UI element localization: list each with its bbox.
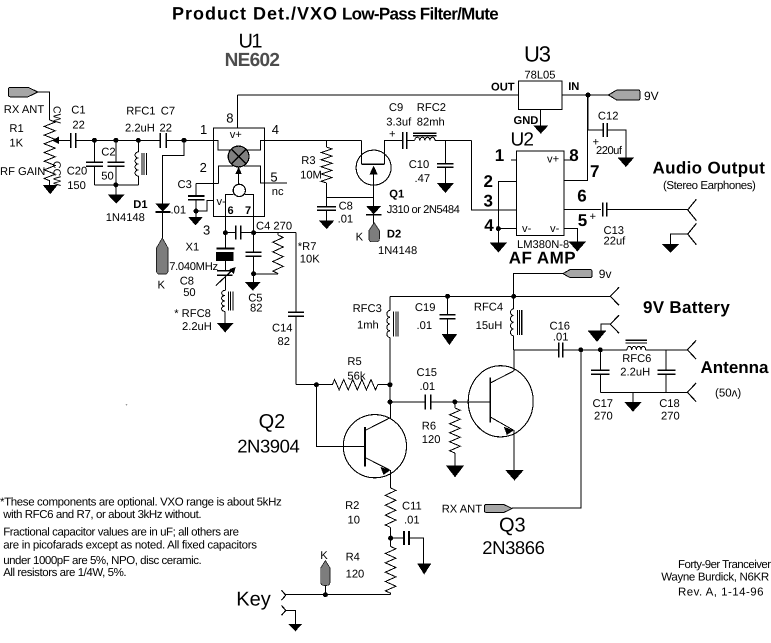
label .01 (C15) [420,381,436,393]
diode D1 1N4148 [155,204,170,239]
pin 8 wire U1 [237,95,239,128]
potentiometer R1 1K [44,120,55,181]
svg-text:1mh: 1mh [357,319,379,331]
label 15uH [476,320,503,332]
svg-text:K: K [158,280,166,292]
ground below C2 [108,185,125,204]
label 8 (U1) [226,111,233,126]
wire C7 to U1 pin1 [166,139,213,141]
label RX ANT [4,104,45,116]
ground below U2 pin4 [490,229,508,253]
label C8 (variable) [180,276,194,288]
node C5/R7 bottom [251,271,256,276]
label C5 [248,293,262,305]
transistor Q2 2N3904 [343,402,406,488]
svg-text:under 1000pF are 5%, NPO, disc: under 1000pF are 5%, NPO, disc ceramic. [3,555,201,567]
svg-text:C17: C17 [593,398,614,410]
label 22 (C7) [160,123,172,135]
wire U1 pin4 to Q1 [265,139,362,141]
label LM380N-8 [517,239,569,251]
IC U1 box [214,128,265,217]
svg-text:*R7: *R7 [298,241,317,253]
svg-text:.01: .01 [420,381,436,393]
label C7 [161,106,175,118]
title Product Det./VXO [172,4,338,24]
label * RFC8 [174,308,211,320]
svg-text:22uf: 22uf [604,235,627,247]
label .01 (C11) [404,515,420,527]
voltage regulator U3 78L05 [519,81,563,110]
label 6 (U2) [577,187,586,206]
node C2 bottom [113,182,118,187]
svg-text:8: 8 [569,146,578,165]
wire key line [286,594,391,596]
svg-text:Audio Output: Audio Output [653,158,766,177]
variable capacitor C8 50 [216,267,236,290]
svg-text:2: 2 [200,160,207,175]
label 3 (U2) [484,192,493,211]
ground below C17/C18 [624,392,642,411]
capacitor C1 22 [71,133,76,148]
label C2 [101,147,115,159]
wire C3 to v- [196,201,214,211]
speck [126,404,128,406]
pin6 stub U1 [224,217,226,233]
label R4 [346,552,360,564]
svg-text:R4: R4 [346,552,360,564]
svg-text:nc: nc [272,186,284,198]
label 7 (U2) [590,162,599,181]
svg-text:C3: C3 [178,179,192,191]
wire to D1 [163,140,184,203]
credit line 2 [661,572,769,584]
battery jack minus [601,315,619,333]
label RFC3 [353,303,382,315]
wire base feed Q2 [316,385,365,447]
label 9v (lower) [599,267,612,281]
node at C20 [92,138,97,143]
svg-text:C1: C1 [71,105,85,117]
svg-text:.01: .01 [553,332,569,344]
label U1 [239,31,263,53]
svg-text:.01: .01 [338,213,354,225]
svg-text:are in picofarads except as no: are in picofarads except as noted. All f… [3,540,257,552]
transistor Q1 J310 [356,140,403,206]
svg-text:NE602: NE602 [225,50,280,71]
capacitor C17 270 [591,350,610,393]
U1 internal pin4 path [246,140,264,150]
svg-text:v-: v- [550,223,560,235]
label R3 [301,155,315,167]
label C17 [593,398,614,410]
audio jack tip [688,199,697,220]
svg-text:Q2: Q2 [259,411,286,433]
pin5 wire U2 [564,229,578,242]
antenna jack sleeve [687,383,696,402]
label CW [51,106,63,124]
svg-text:10M: 10M [300,170,322,182]
wire lower rail [390,295,610,297]
node at C2 [113,138,118,143]
ground below C12 [617,157,634,167]
wire 9v to rail [514,274,563,297]
label RFC6 [622,353,651,365]
label K (D2) [356,231,364,243]
K marker below D1 [157,238,169,274]
svg-text:*These components are optional: *These components are optional. VXO rang… [0,497,282,509]
label 220uf [596,145,623,157]
label 78L05 [524,70,555,82]
label C11 [402,501,422,513]
ground below Q3 emitter [505,470,524,481]
wire to Q3 base [455,401,490,403]
transistor Q3 2N3866 [468,350,533,470]
label D2 [387,228,401,240]
resistor R3 10M [321,140,332,197]
U3 GND pin [533,110,548,134]
label 6 (U1) [228,205,234,217]
svg-text:D2: D2 [387,228,401,240]
svg-text:220uf: 220uf [596,145,623,157]
label NE602 [225,50,280,71]
svg-text:R3: R3 [301,155,315,167]
svg-text:AF AMP: AF AMP [509,248,576,267]
wire pin7 to C14 corner [254,232,296,234]
node pin1 net [182,138,187,143]
svg-text:1: 1 [495,146,504,165]
label 2 (U1) [200,160,207,175]
svg-text:RFC3: RFC3 [353,303,382,315]
label v+ (U1) [230,129,242,141]
key jack sleeve [282,606,296,625]
label RF GAIN [0,166,45,178]
IC U2 box [516,151,563,236]
label .01 (C16) [553,332,569,344]
pin8 stub U2 [564,159,572,161]
wire RX ANT to R1 top [38,92,50,120]
note line 6 [3,567,126,579]
label nc (U1 pin5) [272,186,284,198]
U1 inner rect [225,195,253,217]
label .01 (C3) [171,204,187,216]
audio jack sleeve [670,223,696,244]
label U3 [524,42,551,67]
svg-text:K: K [356,231,364,243]
svg-text:C2: C2 [101,147,115,159]
node Q2 collector [388,399,393,404]
K marker below D2 [369,223,379,242]
label 56k [347,371,365,383]
svg-text:5: 5 [578,211,587,230]
svg-text:v-: v- [522,223,532,235]
svg-text:C9: C9 [389,102,403,114]
svg-text:1: 1 [200,122,207,137]
svg-text:D1: D1 [133,199,147,211]
label 1 (U1) [200,122,207,137]
ground below U2 pin5 [569,242,587,252]
node C14 bottom [314,382,319,387]
pin7 wire U2 [564,95,588,181]
wire C1 to C7 [76,139,161,141]
label 82 (C5) [250,302,262,314]
svg-text:v+: v+ [230,129,242,141]
svg-text:82mh: 82mh [417,116,445,128]
key jack tip [282,590,286,600]
svg-text:RFC2: RFC2 [417,102,446,114]
svg-text:C4 270: C4 270 [256,220,292,232]
label 2N3866 [482,537,544,558]
svg-text:50: 50 [101,170,113,182]
node R6 top [452,399,457,404]
capacitor C12 220uf [588,95,626,157]
label 9V Battery [643,298,730,317]
label C18 [659,398,680,410]
note line 5 [3,555,201,567]
svg-text:7.040MHz: 7.040MHz [169,261,218,273]
svg-text:C8: C8 [180,276,194,288]
resistor R7 10K [254,233,284,274]
svg-text:Key: Key [236,589,270,611]
svg-text:3: 3 [203,222,210,237]
label C10 [409,159,430,171]
connector 9v (lower) [563,270,592,278]
label 9V [644,89,659,103]
svg-text:5: 5 [270,169,277,184]
label AF AMP [509,248,576,267]
svg-text:3: 3 [484,192,493,211]
svg-text:X1: X1 [186,242,200,254]
svg-text:RX ANT: RX ANT [4,104,45,116]
svg-text:U2: U2 [511,129,534,150]
svg-text:.01: .01 [404,515,420,527]
K marker (key) [321,561,330,595]
ground below key jack [288,624,302,631]
svg-text:Q3: Q3 [499,515,526,537]
node K marker [323,592,328,597]
label 4 (U1) [272,122,279,137]
label J310 or 2N5484 [387,204,460,216]
label 22uf [604,235,627,247]
label +(C9) [389,129,396,141]
connector RX ANT (top) [8,87,37,97]
svg-text:120: 120 [422,434,441,446]
note line 1 [0,497,282,509]
label 7 (U1) [245,205,251,217]
svg-text:150: 150 [67,180,86,192]
capacitor C9 3.3uf [403,132,407,149]
pin4 wire U2 [498,228,516,230]
svg-text:270: 270 [661,411,680,423]
capacitor C18 270 [657,350,675,393]
svg-text:RFC4: RFC4 [474,302,503,314]
svg-text:Low-Pass Filter/Mute: Low-Pass Filter/Mute [342,5,498,24]
label RFC2 [417,102,446,114]
label R6 [422,421,436,433]
crystal X1 7.040MHz [216,233,234,271]
svg-text:Forty-9er Tranceiver: Forty-9er Tranceiver [678,559,771,571]
wire R3 bottom to Q1 source [327,197,374,199]
svg-text:1N4148: 1N4148 [378,245,417,257]
wire RFC3 node down [389,385,391,402]
svg-text:2N3866: 2N3866 [482,537,544,558]
svg-text:50: 50 [183,287,195,299]
ground below C11 [417,564,431,575]
label R1 [9,123,23,135]
svg-text:15uH: 15uH [476,320,503,332]
label 50 (C2) [101,170,113,182]
ground below R6 [446,465,464,477]
label 1 (U2) [495,146,504,165]
svg-text:(Stereo Earphones): (Stereo Earphones) [663,180,756,192]
svg-text:All resistors are 1/4W, 5%.: All resistors are 1/4W, 5%. [3,567,126,579]
capacitor C16 .01 [514,342,627,357]
label R5 [347,356,361,368]
ground below C5 [245,274,260,291]
capacitor C19 .01 [440,296,456,334]
label 7.040MHz [169,261,218,273]
label Stereo Earphones [663,180,756,192]
svg-text:C19: C19 [415,302,436,314]
svg-text:2.2uH: 2.2uH [182,321,212,333]
svg-text:2.2uH: 2.2uH [125,123,155,135]
label 5 (U2) [578,211,587,230]
capacitor C11 .01 [391,531,424,564]
label 1N4148 (D2) [378,245,417,257]
label 2.2uH (RFC8) [182,321,212,333]
svg-text:v-: v- [217,196,227,208]
svg-text:2N3904: 2N3904 [237,436,299,457]
label 8 (U2) [569,146,578,165]
title Low-Pass Filter/Mute [342,5,498,24]
label +(C12) [593,137,600,149]
label U2 (title) [511,129,534,150]
svg-text:C18: C18 [659,398,680,410]
svg-text:RFC1: RFC1 [126,106,155,118]
svg-text:C10: C10 [409,159,430,171]
label C15 [417,367,438,379]
svg-text:78L05: 78L05 [524,70,555,82]
wire C20/C2/RFC1 common [94,184,138,186]
label .01 (C19) [417,320,433,332]
svg-text:6: 6 [577,187,586,206]
svg-text:RF GAIN: RF GAIN [0,166,45,178]
wire C14 to R5 [296,384,332,386]
svg-text:7: 7 [590,162,599,181]
svg-text:C11: C11 [402,501,422,513]
node R2 bottom [388,536,393,541]
capacitor C14 82 [288,233,304,385]
label Q2 [259,411,286,433]
svg-text:Q1: Q1 [389,189,404,201]
U1 oscillator circle [233,184,245,196]
svg-text:10: 10 [348,515,360,527]
svg-text:120: 120 [346,569,365,581]
label K (D1) [158,280,166,292]
label IN [568,81,579,93]
capacitor C2 50 [107,140,124,185]
label 50 (C8 variable) [183,287,195,299]
wire C17/C18 bottom [600,391,687,393]
label 1mh [357,319,379,331]
ground below C10 [437,183,454,193]
pin6 wire U2 [564,208,601,210]
connector 9V [608,90,640,100]
svg-text:Fractional capacitor values ar: Fractional capacitor values are in uF; a… [3,526,238,538]
label 120 (R4) [346,569,365,581]
wire RFC2 to U2 pin3 [472,141,517,211]
label 4 (U2) [484,216,494,235]
svg-text:CCW: CCW [51,161,63,186]
svg-text:C20: C20 [67,166,88,178]
label C1 [71,105,85,117]
label GND [514,115,539,127]
node RFC4 tap [511,294,516,299]
svg-text:+: + [389,129,396,141]
note line 4 [3,540,257,552]
svg-text:R2: R2 [345,500,359,512]
wire antenna net to RX ANT [512,350,581,508]
svg-text:8: 8 [226,111,233,126]
label OUT [491,81,515,93]
label C9 [389,102,403,114]
label 2.2uH (RFC6) [620,367,650,379]
label 270 (C17) [594,411,613,423]
label Q1 [389,189,404,201]
label C4 270 [256,220,292,232]
diode D2 1N4148 [366,206,381,224]
label C19 [415,302,436,314]
capacitor C3 .01 [188,184,204,212]
inductor RFC2 82mh [407,133,472,140]
label 270 (C18) [661,411,680,423]
label + (U2 pin5) [590,211,597,223]
node at RFC1 [136,138,141,143]
wire U3 IN to 9V [562,94,608,96]
label 150 [67,180,86,192]
svg-text:2.2uH: 2.2uH [620,367,650,379]
svg-text:R6: R6 [422,421,436,433]
svg-text:4: 4 [484,216,494,235]
svg-text:IN: IN [568,81,579,93]
inductor RFC3 1mh [387,296,398,384]
U1 internal pin5 path [244,166,287,183]
label 10 (R2) [348,515,360,527]
node C19 tap [445,294,450,299]
label .47 [415,173,431,185]
label CCW [51,161,63,186]
svg-text:9V: 9V [644,89,659,103]
label 10M [300,170,322,182]
wire U1 pin8 to U3 OUT [238,94,519,96]
resistor R2 10 [385,488,396,538]
svg-text:C14: C14 [272,322,293,334]
inductor RFC4 15uH [511,296,522,350]
svg-text:K: K [320,550,328,562]
svg-text:82: 82 [250,302,262,314]
svg-text:1K: 1K [9,138,23,150]
svg-text:v+: v+ [547,154,559,166]
note line 2 [2,509,201,521]
label C8 (mute) [339,201,353,213]
ground below audio jack [662,244,679,253]
label 1N4148 (D1) [106,212,145,224]
svg-text:56k: 56k [347,371,365,383]
svg-text:22: 22 [72,119,84,131]
svg-text:Antenna: Antenna [701,358,770,377]
node 9V junction [586,93,591,98]
label 120 (R6) [422,434,441,446]
svg-text:RFC6: RFC6 [622,353,651,365]
